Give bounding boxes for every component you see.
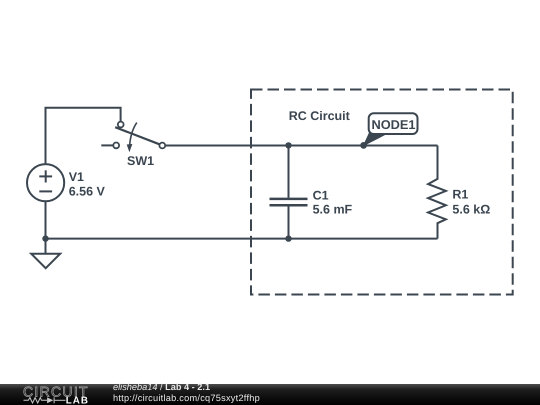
svg-text:V1: V1 — [69, 170, 84, 184]
R1 value labels — [452, 188, 490, 217]
CircuitLab logo wordmark LAB — [66, 396, 89, 405]
svg-text:http://circuitlab.com/cq75sxyt: http://circuitlab.com/cq75sxyt2ffhp — [113, 393, 260, 403]
capacitor C1 — [270, 146, 308, 239]
switch SW1 blade — [115, 127, 159, 144]
svg-text:6.56 V: 6.56 V — [69, 185, 106, 199]
svg-text:R1: R1 — [452, 188, 468, 202]
ground — [31, 254, 60, 269]
footer credit line — [113, 382, 260, 403]
wire V1 bottom to ground node — [45, 201, 47, 253]
svg-text:elisheba14 / Lab 4 - 2.1: elisheba14 / Lab 4 - 2.1 — [113, 382, 210, 392]
switch actuation arrow — [127, 123, 137, 153]
wire from V1 top to switch terminal — [46, 108, 121, 165]
svg-text:RC Circuit: RC Circuit — [289, 109, 351, 123]
junction dot top of C1 — [285, 142, 291, 148]
CircuitLab logo resistor-diode squiggle — [24, 397, 66, 403]
svg-text:LAB: LAB — [66, 396, 89, 405]
junction dot bottom of C1 — [285, 235, 291, 241]
C1 value labels — [313, 188, 353, 216]
NODE1 callout bubble — [369, 113, 418, 134]
resistor R1 — [428, 146, 446, 239]
svg-text:SW1: SW1 — [127, 154, 154, 168]
RC Circuit title — [289, 109, 351, 123]
SW1 label — [127, 154, 154, 168]
svg-text:5.6 mF: 5.6 mF — [313, 203, 353, 217]
footer black bar — [0, 384, 540, 405]
svg-text:C1: C1 — [313, 188, 329, 202]
junction dot at V1/ground node — [42, 235, 48, 241]
switch SW1 terminals — [113, 122, 165, 149]
NODE1 callout tail — [363, 132, 388, 147]
voltage source V1 — [27, 164, 64, 201]
switch unused throw stub wire — [101, 144, 113, 146]
svg-text:5.6 kΩ: 5.6 kΩ — [452, 202, 490, 216]
node NODE1 junction dot — [360, 142, 367, 149]
dashed enclosure box — [251, 90, 513, 295]
main top wire (switch to R1) — [165, 145, 437, 147]
CircuitLab logo wordmark CIRCUIT — [23, 384, 89, 400]
V1 value labels — [69, 170, 106, 198]
svg-text:NODE1: NODE1 — [371, 117, 415, 132]
bottom wire (ground net) — [46, 238, 438, 240]
